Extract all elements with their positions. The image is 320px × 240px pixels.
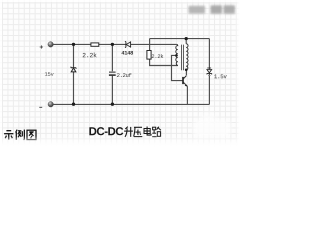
transformer T1 primary winding xyxy=(176,44,178,65)
transistor Q1 collector xyxy=(183,76,186,79)
capacitor C1 2.2uf plates xyxy=(109,72,116,76)
wire capacitor branch top xyxy=(111,44,113,71)
wire emitter down xyxy=(186,86,188,104)
terminal + ball xyxy=(48,42,53,47)
transistor Q1 emitter xyxy=(183,82,187,86)
caption char ya xyxy=(134,127,143,136)
label 4148 xyxy=(121,51,133,55)
transformer T1 secondary winding xyxy=(186,44,188,70)
label 2.2uf xyxy=(117,73,131,77)
label 15v xyxy=(45,72,54,76)
transformer T1 core xyxy=(182,45,184,71)
watermark blob 3 xyxy=(224,5,236,13)
transistor Q1 emitter arrow xyxy=(185,84,187,86)
node junction top cap xyxy=(111,43,114,46)
wire top line xyxy=(150,38,210,40)
wire capacitor branch bottom xyxy=(111,76,113,105)
terminal - ball xyxy=(48,102,53,107)
wire winding tap to base xyxy=(172,55,183,80)
zener diode D1 xyxy=(71,67,76,72)
diode D2 4148 xyxy=(125,42,131,48)
node junction bottom cap xyxy=(111,103,114,106)
node junction top zener xyxy=(72,43,75,46)
transformer T1 phasing dot secondary xyxy=(185,69,188,72)
wire collector down xyxy=(185,70,187,76)
minus sign xyxy=(39,106,42,108)
wire secondary stub xyxy=(185,39,187,44)
resistor R2 2.2k vertical xyxy=(147,51,151,60)
label 1.5v xyxy=(214,74,226,78)
erased watermark white patch xyxy=(193,113,231,139)
resistor R1 2.2k xyxy=(91,43,99,46)
transistor Q1 base bar xyxy=(182,77,184,84)
wire right branch xyxy=(208,39,210,105)
caption DC-DC xyxy=(89,127,123,135)
wire zener branch xyxy=(73,44,75,104)
node junction bottom zener xyxy=(72,103,75,106)
zener diode D3 1.5v xyxy=(207,68,212,75)
wire resistor R2 bottom to winding bottom xyxy=(150,59,178,65)
node junction secondary top xyxy=(185,37,188,40)
transformer T1 tap dot primary xyxy=(175,54,178,57)
wire bottom rail xyxy=(53,103,209,105)
wire top rail xyxy=(53,43,177,45)
watermark blob 2 xyxy=(211,5,223,13)
caption char lu xyxy=(152,127,161,137)
plus sign xyxy=(40,45,43,48)
label 2.2k R1 xyxy=(83,53,97,58)
label 2.2k R2 xyxy=(152,54,164,58)
caption li xyxy=(16,130,25,140)
wire connector R2 top xyxy=(149,39,151,51)
caption char sheng xyxy=(124,127,133,137)
caption tu xyxy=(27,130,36,139)
watermark blob 1 xyxy=(189,6,206,14)
caption shi xyxy=(4,131,13,140)
caption char dian xyxy=(144,127,151,136)
